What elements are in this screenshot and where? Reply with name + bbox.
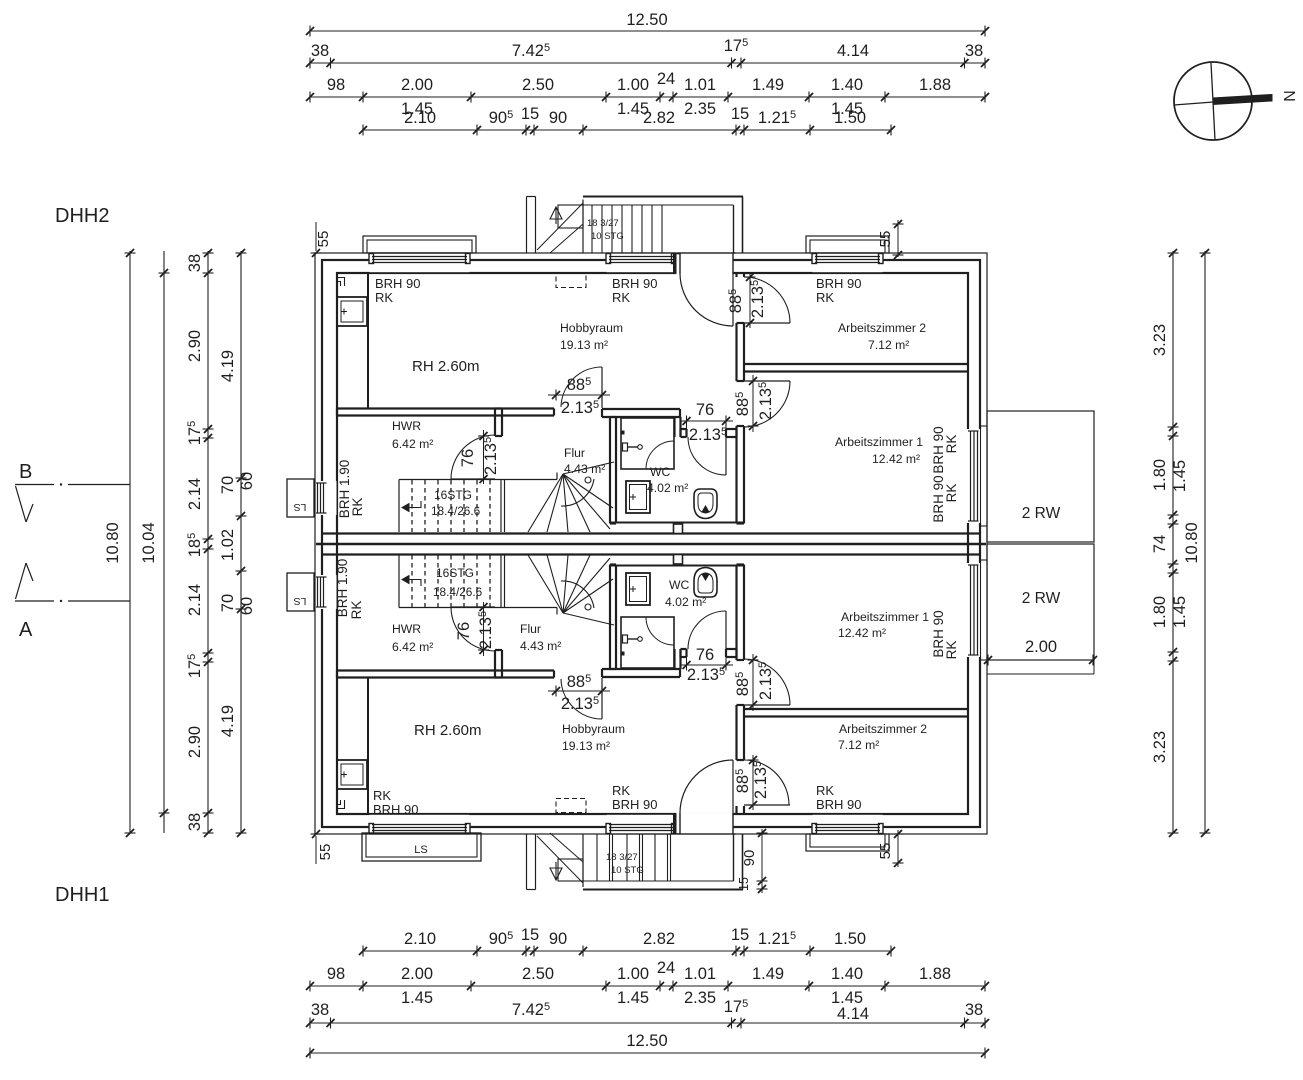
window left wall bottom LS [316,575,337,609]
svg-text:7.12 m²: 7.12 m² [868,338,909,352]
door Arbeitszimmer2 top unit 88-5 [744,322,790,324]
toilet top unit [694,489,717,519]
stair internal bottom unit winder treads [503,607,557,609]
window left wall top LS [316,481,337,515]
svg-text:4.14: 4.14 [837,42,869,60]
svg-text:RK: RK [612,290,630,305]
svg-text:38: 38 [186,254,204,272]
svg-text:BRH 90: BRH 90 [612,276,658,291]
svg-text:RK: RK [349,601,364,620]
2RW box top [987,411,1094,542]
svg-text:90: 90 [549,109,567,127]
wall WC bottom edge bottom unit [602,668,680,670]
svg-text:70: 70 [219,594,237,612]
dimension chain right col1 [1172,251,1174,833]
svg-text:BRH 90: BRH 90 [612,797,658,812]
wall Arbeitszimmer divider bottom unit [744,708,968,710]
window W1 top wall [370,254,470,272]
svg-text:2 RW: 2 RW [1022,590,1061,607]
compass needle [1213,95,1272,105]
svg-text:7.12 m²: 7.12 m² [838,738,879,752]
window right wall top unit [967,429,987,523]
svg-text:3.23: 3.23 [1151,731,1169,763]
svg-text:19.13 m²: 19.13 m² [560,338,608,352]
external stair bottom outline [583,889,743,891]
external stair bottom treads [596,834,598,881]
svg-text:Arbeitszimmer 1: Arbeitszimmer 1 [841,610,929,624]
external stair top right wall [742,197,744,254]
svg-text:18 3/27: 18 3/27 [606,852,638,863]
dimension chain bottom rowA [363,950,891,952]
svg-text:98: 98 [327,965,345,983]
svg-text:3.23: 3.23 [1151,324,1169,356]
party wall [610,522,744,524]
svg-text:1.45: 1.45 [1171,460,1189,492]
svg-text:Arbeitszimmer 2: Arbeitszimmer 2 [838,321,926,335]
svg-text:1.49: 1.49 [752,965,784,983]
svg-text:12.42 m²: 12.42 m² [838,626,886,640]
exterior wall inner face [337,273,968,814]
svg-text:15: 15 [521,926,539,944]
window W3 top wall [813,254,883,272]
svg-text:16STG: 16STG [436,566,474,580]
svg-text:16STG: 16STG [434,488,472,502]
party wall vent box top [674,524,683,534]
wall Arbeitszimmer divider top unit [744,363,968,365]
svg-text:4.19: 4.19 [219,705,237,737]
dimension chain top row1 total 12.50 [310,30,985,32]
svg-text:RK: RK [350,498,365,517]
svg-text:RK: RK [944,641,959,660]
wall pier between window and entrance top [674,254,681,273]
wall rooms divider x740 top unit segments [735,273,737,277]
svg-text:10.80: 10.80 [104,522,122,563]
sink top unit [626,481,650,513]
svg-text:38: 38 [965,42,983,60]
svg-text:1.88: 1.88 [919,965,951,983]
svg-text:A: A [19,619,33,641]
svg-text:BRH 90: BRH 90 [816,276,862,291]
wall WC step top unit [673,417,675,437]
washbasin tap top unit [623,443,628,451]
wall WC right of door bottom unit [726,648,737,650]
svg-text:38: 38 [186,813,204,831]
svg-text:2.10: 2.10 [404,930,436,948]
svg-text:15: 15 [521,105,539,123]
svg-text:RK: RK [375,290,393,305]
svg-text:1.00: 1.00 [617,76,649,94]
external stair bottom dim 90 15 [761,829,763,893]
svg-text:2.00: 2.00 [401,76,433,94]
svg-text:76: 76 [696,401,714,419]
svg-text:1.01: 1.01 [684,76,716,94]
wall Hobbyraum/HWR bottom unit [337,669,554,671]
stair internal bottom unit straight flight dashed [399,607,503,609]
window bay W3 top [806,236,889,253]
toilet bottom unit [694,568,717,598]
svg-text:74: 74 [1151,535,1169,553]
compass rose [1174,62,1252,140]
svg-text:76: 76 [455,622,473,640]
svg-text:2.82: 2.82 [643,109,675,127]
section line B [15,484,54,486]
door HWR bottom unit 76 [451,606,495,608]
svg-text:1.40: 1.40 [831,76,863,94]
window W2 top wall under stair [607,254,676,272]
svg-text:18.4/26.6: 18.4/26.6 [433,585,483,599]
external stair bottom landing [558,859,583,881]
dimension chain top row4 [363,129,891,131]
svg-text:1.80: 1.80 [1151,596,1169,628]
WC closet top unit [621,418,674,469]
sink bottom unit [626,573,650,605]
wall HWR right top unit [494,409,496,437]
svg-text:4.02 m²: 4.02 m² [647,481,688,495]
chimney block top unit [337,297,367,326]
external stair top arrow [550,207,562,219]
section marker B arrow [16,486,27,522]
svg-text:15: 15 [731,105,749,123]
svg-text:RK: RK [944,435,959,454]
svg-text:6.42 m²: 6.42 m² [392,437,433,451]
svg-text:LS: LS [294,501,307,513]
svg-text:76: 76 [459,449,477,467]
svg-text:38: 38 [311,42,329,60]
external stair bottom diagonals [537,836,583,883]
wall WC step bottom unit [673,649,675,669]
section line A [15,600,54,602]
external stair bottom side strip [526,834,528,890]
svg-text:1.88: 1.88 [919,76,951,94]
LS box bottom wall [362,833,481,861]
svg-text:WC: WC [650,465,671,479]
window bay right bottom [981,560,988,660]
55 dim top left [315,222,317,251]
svg-text:2.14: 2.14 [186,584,204,616]
svg-text:1.80: 1.80 [1151,459,1169,491]
svg-text:RK: RK [612,783,630,798]
section marker A arrow [16,563,27,599]
svg-text:15: 15 [737,877,751,891]
dashed box entrance bottom [556,799,586,813]
svg-text:10 STG: 10 STG [611,865,644,876]
svg-text:BRH 1.90: BRH 1.90 [335,559,350,618]
svg-text:RH 2.60m: RH 2.60m [414,722,482,739]
svg-text:12.50: 12.50 [626,1032,667,1050]
svg-text:Arbeitszimmer 1: Arbeitszimmer 1 [835,435,923,449]
dimension chain left col3 [207,251,209,833]
svg-text:2.50: 2.50 [522,965,554,983]
svg-text:55: 55 [877,231,894,248]
svg-text:1.45: 1.45 [1171,596,1189,628]
outer thin contour [315,253,987,834]
corner mark top left [337,278,345,287]
dimension chain top row3 [310,96,985,98]
2RW box bottom [987,544,1094,660]
svg-text:18 3/27: 18 3/27 [587,218,619,229]
svg-text:N: N [1280,90,1297,102]
svg-text:RK: RK [816,290,834,305]
external stair top treads [591,205,593,253]
niche partition bottom unit [367,678,369,814]
wall HWR right bottom unit [494,650,496,678]
55 dim bottom right [897,830,899,867]
svg-text:12.50: 12.50 [626,11,667,29]
svg-text:RK: RK [944,484,959,503]
svg-text:Flur: Flur [520,622,541,636]
svg-text:15: 15 [731,926,749,944]
dimension chain bottom rowC [310,1022,985,1024]
svg-text:DHH1: DHH1 [55,884,109,906]
svg-text:HWR: HWR [392,419,421,433]
wall pier between window and entrance bottom [674,814,681,833]
dimension chain bottom rowD total 12.50 [310,1052,985,1054]
svg-text:BRH 90: BRH 90 [816,797,862,812]
svg-text:Hobbyraum: Hobbyraum [560,321,623,335]
svg-text:90: 90 [549,930,567,948]
svg-text:55: 55 [315,231,332,248]
svg-text:2.14: 2.14 [186,478,204,510]
party wall vent box bottom [674,555,683,565]
LS box left bottom [287,573,314,611]
external stair top outline [583,196,743,198]
stair internal bottom unit arrow [409,580,421,587]
svg-text:1.45: 1.45 [617,989,649,1007]
door Arbeitszimmer1 top unit 88-5 [744,380,790,382]
stair internal top unit winder treads [503,479,557,481]
external stair top landing [558,205,583,228]
svg-text:2.90: 2.90 [186,330,204,362]
svg-text:1.49: 1.49 [752,76,784,94]
door Arbeitszimmer2 bottom unit 88-5 [744,804,790,806]
svg-text:1.50: 1.50 [834,930,866,948]
svg-text:12.42 m²: 12.42 m² [872,452,920,466]
door WC top unit 76 [725,437,727,475]
svg-text:55: 55 [877,843,894,860]
dimension chain top row2 38/7.42-5/17-5/4.14/38 [310,62,985,64]
svg-text:24: 24 [657,959,675,977]
wall rooms divider x740 bottom unit segments [735,565,737,661]
svg-text:38: 38 [965,1001,983,1019]
svg-text:2.82: 2.82 [643,930,675,948]
svg-text:1.02: 1.02 [219,529,237,561]
door HWR top unit 76 [451,478,495,480]
svg-text:10.04: 10.04 [140,522,158,563]
svg-text:4.02 m²: 4.02 m² [665,595,706,609]
window bay right top [981,426,988,526]
svg-text:60: 60 [238,597,256,615]
niche partition top unit [367,273,369,408]
dashed box entrance top [556,274,586,288]
svg-text:90: 90 [741,850,758,867]
dimension line left col1 total 10.80 [129,251,131,833]
window bay W3 bottom [806,834,889,851]
dimension line right col2 total 10.80 [1204,251,1206,833]
door WC bottom unit 76 [725,611,727,649]
svg-text:2.00: 2.00 [401,965,433,983]
svg-text:HWR: HWR [392,622,421,636]
svg-text:RH 2.60m: RH 2.60m [412,358,480,375]
svg-text:Hobbyraum: Hobbyraum [562,722,625,736]
svg-text:76: 76 [696,646,714,664]
svg-text:1.01: 1.01 [684,965,716,983]
window bay W1 top [363,236,476,253]
svg-text:DHH2: DHH2 [55,205,109,227]
svg-text:24: 24 [657,70,675,88]
entrance door bottom unit [677,813,734,833]
svg-text:4.43 m²: 4.43 m² [520,639,561,653]
svg-text:6.42 m²: 6.42 m² [392,640,433,654]
svg-text:LS: LS [294,595,307,607]
svg-text:BRH 90: BRH 90 [373,802,419,817]
window W1b bottom wall [370,815,470,833]
svg-text:LS: LS [414,844,427,856]
window W3b bottom wall [813,815,883,833]
svg-text:2.35: 2.35 [684,989,716,1007]
wall WC right of door top unit [726,428,737,430]
svg-text:18.4/26.6: 18.4/26.6 [431,504,481,518]
svg-text:WC: WC [669,578,690,592]
svg-text:4.19: 4.19 [219,350,237,382]
dimension chain bottom rowB [310,985,985,987]
svg-text:4.43 m²: 4.43 m² [564,462,605,476]
wall Hobbyraum/HWR top unit [337,407,554,409]
corner mark bottom left [337,800,345,809]
svg-text:98: 98 [327,76,345,94]
svg-text:RK: RK [373,788,391,803]
55 dim bottom left [315,836,317,864]
svg-text:1.00: 1.00 [617,965,649,983]
window W2b bottom wall under stair [607,815,676,833]
svg-text:2.10: 2.10 [404,109,436,127]
svg-text:4.14: 4.14 [837,1005,869,1023]
svg-text:2.00: 2.00 [1025,638,1057,656]
door Hobbyraum top unit 88-5 [601,367,603,408]
wall WC top edge top unit [602,408,680,410]
svg-text:19.13 m²: 19.13 m² [562,739,610,753]
wall WC left bottom unit [609,565,611,670]
door Arbeitszimmer1 bottom unit 88-5 [744,704,790,706]
external stair bottom arrow [550,868,562,880]
entrance door top unit [677,254,734,274]
svg-text:70: 70 [219,476,237,494]
svg-text:10.80: 10.80 [1183,522,1201,563]
svg-text:RK: RK [816,783,834,798]
stair internal top unit straight flight dashed [399,479,503,481]
LS box left top [287,479,314,517]
external stair top diagonals [537,203,583,250]
exterior wall outer face [322,260,980,827]
svg-text:Flur: Flur [564,446,585,460]
door Hobbyraum bottom unit 88-5 [601,678,603,719]
dimension chain left col4 [240,251,242,833]
chimney block bottom unit [337,760,367,789]
svg-text:1.45: 1.45 [401,989,433,1007]
svg-text:2.50: 2.50 [522,76,554,94]
svg-text:55: 55 [317,844,334,861]
svg-text:1.50: 1.50 [834,109,866,127]
svg-text:2.35: 2.35 [684,100,716,118]
svg-text:60: 60 [238,472,256,490]
dimension line left col2 10.04 [163,251,165,833]
svg-text:Arbeitszimmer 2: Arbeitszimmer 2 [839,722,927,736]
washbasin tap bottom unit [623,635,628,643]
svg-text:2.90: 2.90 [186,726,204,758]
55 dim top right [897,220,899,257]
window right wall bottom unit [967,563,987,657]
svg-text:38: 38 [311,1001,329,1019]
wall WC left top unit [609,417,611,524]
svg-text:10 STG: 10 STG [591,231,624,242]
svg-text:B: B [19,461,32,483]
WC closet bottom unit [621,617,674,668]
external stair top side strip [526,197,528,254]
stair internal top unit arrow [409,501,421,508]
svg-text:BRH 90: BRH 90 [375,276,421,291]
svg-text:2 RW: 2 RW [1022,505,1061,522]
svg-text:1.40: 1.40 [831,965,863,983]
